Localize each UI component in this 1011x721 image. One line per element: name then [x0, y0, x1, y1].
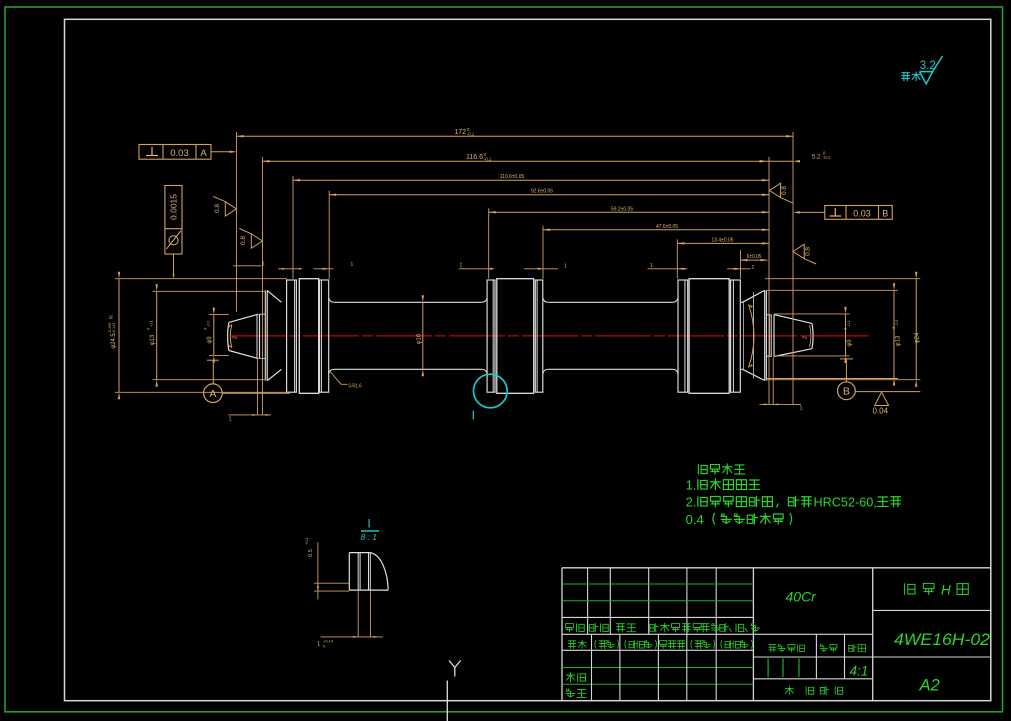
svg-text:0.8: 0.8: [805, 247, 812, 256]
svg-text:φ9: φ9: [207, 336, 213, 344]
svg-text:1: 1: [752, 265, 755, 271]
svg-text:0.0015: 0.0015: [169, 194, 179, 220]
Ra frame 0.0015: [165, 186, 182, 255]
dim 13.4±0.05: [677, 242, 769, 244]
detail dim 0.5: [317, 542, 319, 599]
svg-text:-0.1: -0.1: [149, 319, 154, 327]
dim 59.2±0.05: [489, 211, 769, 213]
title part name: [905, 584, 915, 595]
right big cone: [743, 290, 765, 380]
svg-text:A: A: [209, 388, 216, 400]
dim 92.6±0.05: [329, 194, 769, 196]
wire: red centerline: [230, 335, 869, 337]
dim 1 bottom right: [759, 403, 801, 405]
dim 172 tol: [237, 135, 794, 137]
svg-text:1: 1: [351, 262, 354, 268]
extension lines vertical: [236, 132, 238, 312]
chamfer dims 1x45: [233, 265, 261, 267]
svg-text:1.: 1.: [686, 478, 697, 493]
title stage ticks: [767, 659, 769, 678]
svg-text:+0.1: +0.1: [304, 536, 309, 545]
svg-text:φ13: φ13: [150, 334, 156, 345]
svg-text:1: 1: [564, 264, 567, 270]
svg-text:0-R1.6: 0-R1.6: [349, 383, 362, 389]
svg-text:-0.1: -0.1: [823, 155, 831, 160]
FCF perpendicularity A: [139, 145, 211, 160]
svg-text:59.2±0.05: 59.2±0.05: [611, 206, 633, 212]
dim 47.6±0.05: [543, 229, 769, 231]
bottom centering mark Y: [447, 661, 460, 721]
left cone chamfer: [260, 314, 266, 358]
svg-text:φ24.5: φ24.5: [111, 333, 117, 349]
roughness 0.8 #1: [225, 202, 236, 216]
svg-text:B: B: [882, 208, 888, 218]
roughness 0.8 #3: [769, 183, 780, 197]
title lower grid verticals: [591, 634, 593, 700]
default roughness 3.2: [902, 73, 910, 81]
title right divider: [873, 609, 991, 611]
svg-text:5.2: 5.2: [812, 155, 821, 161]
title jieduanbiaoji: [769, 645, 776, 652]
svg-text:-0.109: -0.109: [108, 323, 112, 334]
title block outer lines: [561, 568, 563, 701]
datum B: [840, 358, 853, 360]
svg-text:I: I: [367, 517, 370, 531]
dim phi13 right: [893, 290, 895, 378]
svg-text:-0.1: -0.1: [467, 132, 475, 137]
svg-text:2.: 2.: [686, 495, 697, 510]
right tip chamfer: [766, 315, 771, 356]
svg-text:A: A: [200, 148, 207, 159]
svg-text:47.6±0.05: 47.6±0.05: [656, 224, 678, 230]
svg-text:f6: f6: [109, 315, 114, 319]
title gongyi: [566, 689, 575, 697]
dim 110.6±0.05: [293, 179, 769, 181]
dim phi24 right: [915, 279, 917, 380]
svg-text:40Cr: 40Cr: [786, 589, 818, 605]
dim phi9 right: [845, 314, 847, 356]
right tip cone: [774, 315, 813, 357]
svg-text:-0.1: -0.1: [846, 319, 851, 327]
title mid horizontals: [753, 656, 990, 658]
tech requirements: [698, 465, 707, 474]
svg-text:0.04: 0.04: [873, 407, 889, 416]
SR arc left tip: [230, 325, 232, 348]
roughness 0.8 #4: [793, 244, 804, 258]
svg-text:A2: A2: [919, 677, 940, 695]
svg-text:2: 2: [233, 336, 239, 339]
svg-text:1: 1: [800, 406, 803, 412]
title upper grid verticals: [587, 568, 589, 635]
svg-text:φ24: φ24: [915, 332, 921, 343]
svg-text:1: 1: [262, 262, 265, 268]
svg-text:13.4±0.05: 13.4±0.05: [711, 237, 733, 243]
detail dim 1: [357, 590, 359, 637]
dim phi9 left: [213, 315, 215, 356]
spacer 2: [548, 302, 672, 369]
dim phi16: [422, 302, 424, 369]
svg-text:-0.1: -0.1: [894, 318, 899, 326]
svg-text:0.03: 0.03: [853, 208, 871, 218]
svg-text:0.03: 0.03: [170, 148, 189, 159]
detail profile: [349, 553, 388, 591]
dim 116.6 tol: [263, 160, 767, 162]
land rings/body: [487, 280, 495, 392]
svg-text:φ16: φ16: [417, 333, 423, 344]
svg-text:1: 1: [650, 263, 653, 269]
svg-text:-0.1: -0.1: [484, 157, 492, 162]
land rings/body: [678, 280, 688, 392]
svg-text:φ13: φ13: [896, 335, 902, 346]
svg-text:8 : 1: 8 : 1: [361, 532, 378, 542]
land rings/body: [287, 280, 297, 392]
svg-text:4WE16H-02: 4WE16H-02: [894, 630, 991, 649]
left big cone: [264, 290, 266, 380]
runout 0.04: [875, 392, 889, 405]
svg-text:0.8: 0.8: [781, 186, 788, 195]
groove radius leader: [330, 372, 348, 385]
title grid horizontals: [562, 616, 753, 618]
svg-text:0.8: 0.8: [240, 236, 247, 245]
FCF perpendicularity B: [825, 206, 892, 220]
svg-text:φ9: φ9: [847, 339, 853, 347]
dim phi13 left: [156, 291, 158, 379]
svg-text:0.8: 0.8: [214, 204, 221, 213]
svg-text:6±0.05: 6±0.05: [747, 254, 762, 260]
dim phi24.5 f6: [118, 279, 120, 393]
svg-text:0.5: 0.5: [308, 549, 314, 557]
svg-text:110.6±0.05: 110.6±0.05: [500, 174, 525, 180]
datum A: [207, 359, 219, 361]
svg-text:2: 2: [803, 336, 809, 339]
detail circle I: [474, 374, 508, 408]
svg-text:HRC52-60,: HRC52-60,: [813, 495, 876, 510]
left tip cone: [228, 314, 259, 358]
dim 1 bottom left: [228, 414, 271, 416]
SR arc right cone: [749, 305, 755, 368]
title green rows: [562, 583, 753, 585]
svg-text:116.6: 116.6: [466, 154, 483, 161]
right cone neck: [740, 302, 742, 369]
title shenhe: [566, 673, 575, 682]
title gong zhang di zhang: [785, 686, 793, 695]
svg-text:1: 1: [460, 263, 463, 269]
svg-text:B: B: [843, 385, 850, 397]
svg-text:I: I: [471, 408, 475, 423]
SR arc right tip: [810, 325, 811, 347]
roughness 0.8 #2: [251, 234, 262, 248]
svg-text:92.6±0.05: 92.6±0.05: [531, 189, 553, 195]
svg-text:1: 1: [229, 417, 232, 423]
spacer 1: [334, 302, 481, 369]
dim 5.2: [767, 160, 793, 162]
svg-text:0.4: 0.4: [686, 512, 708, 527]
svg-text:172: 172: [454, 129, 466, 136]
svg-text:-0.1: -0.1: [206, 319, 211, 327]
dim 6±0.05: [741, 259, 768, 261]
title row biaoji: [565, 623, 573, 631]
svg-text:-0.142: -0.142: [112, 323, 116, 334]
svg-text:H: H: [941, 583, 951, 598]
title row sheji: [568, 641, 575, 649]
svg-text:4:1: 4:1: [850, 664, 869, 679]
